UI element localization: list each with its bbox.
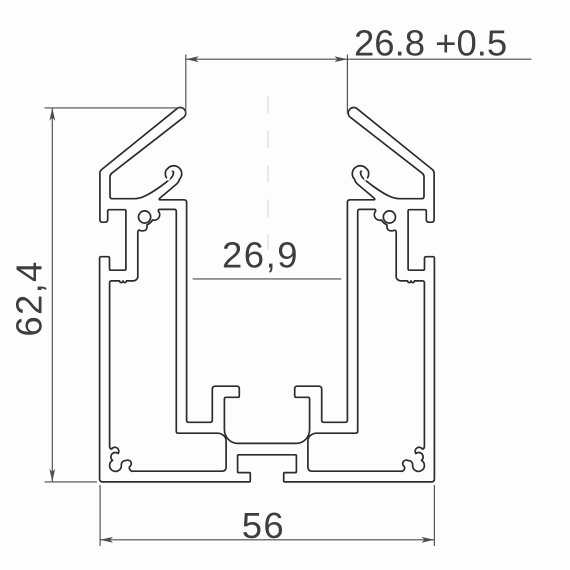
- wire left extension line bottom: [45, 481, 98, 483]
- node gasket slot curl right (white carve): [363, 173, 366, 179]
- node arrow bottom-left: [100, 537, 113, 543]
- wire bottom extension line left: [99, 485, 101, 546]
- node gasket slot curl left (white carve): [168, 173, 171, 179]
- node arrow top-right: [334, 56, 347, 62]
- node arrow left-top: [49, 108, 55, 121]
- node arrow bottom-right: [421, 537, 434, 543]
- wire bottom extension line right: [433, 485, 435, 546]
- wire left extension line top: [45, 107, 183, 109]
- svg-text:26,9: 26,9: [222, 235, 299, 276]
- wire top extension line left: [185, 55, 187, 115]
- centerline (dashed): [267, 96, 269, 250]
- wire 26,9 underline: [193, 278, 342, 280]
- node screw bore left: [139, 211, 151, 223]
- profile outline: aluminium extrusion cross-section: [100, 108, 435, 482]
- node arrow top-left: [186, 56, 199, 62]
- svg-text:62,4: 62,4: [8, 260, 49, 336]
- node left chamber cavity: [110, 209, 227, 471]
- wire top extension line right: [346, 55, 348, 115]
- wire top dimension line 26.8: [186, 58, 532, 60]
- wire outer contour right half (mirror): [267, 108, 434, 482]
- wire left dimension line 62.4: [51, 108, 53, 482]
- svg-text:56: 56: [242, 505, 285, 546]
- node screw bore right: [383, 211, 395, 223]
- wire outer contour left half: [100, 108, 267, 482]
- node right chamber cavity (mirror): [308, 209, 425, 471]
- node arrow left-bottom: [49, 469, 55, 482]
- wire bottom dimension line 56: [100, 539, 434, 541]
- svg-text:26.8 +0.5: 26.8 +0.5: [354, 23, 507, 64]
- dimension graphics: [45, 55, 532, 547]
